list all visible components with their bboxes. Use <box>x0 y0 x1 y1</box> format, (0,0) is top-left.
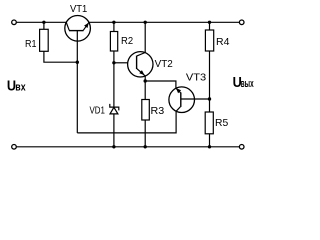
wire bottom rail <box>17 146 240 148</box>
zener diode VD1 cathode bar <box>110 104 119 111</box>
terminal input top <box>12 20 17 25</box>
wire R2 top lead <box>113 22 115 31</box>
transistor VT3 circle <box>169 87 195 113</box>
wire top rail right <box>89 21 239 23</box>
transistor VT3 base bar <box>180 92 182 107</box>
transistor VT2 circle <box>128 52 153 77</box>
svg-text:VT2: VT2 <box>155 59 174 70</box>
junction dot R1 to base <box>76 61 79 64</box>
transistor VT1 collector diagonal <box>66 22 69 30</box>
transistor VT1 circle <box>65 15 91 41</box>
wire VT2 base <box>114 62 128 64</box>
resistor R3 <box>142 100 150 121</box>
junction dot divider R4 R5 <box>208 97 211 100</box>
wire R1 bottom to VT1 base <box>44 51 77 62</box>
wire R4 top lead <box>209 22 211 30</box>
svg-text:R2: R2 <box>121 36 133 47</box>
transistor VT2 emitter arrow <box>139 70 144 75</box>
svg-text:R5: R5 <box>215 118 229 129</box>
resistor R5 <box>205 112 213 134</box>
resistor R2 <box>110 32 117 52</box>
wire VT3 base to divider <box>181 98 210 100</box>
wire VT1 base down <box>76 31 78 133</box>
wire VT2 emitter down to R3 <box>144 76 146 100</box>
transistor VT2 emitter diagonal <box>137 69 145 76</box>
wire emitter link to VT3 <box>145 81 176 88</box>
resistor R4 <box>205 30 213 51</box>
terminal output top <box>239 20 244 25</box>
terminal output bottom <box>239 145 244 150</box>
transistor VT2 collector diagonal <box>137 53 145 56</box>
svg-text:VD1: VD1 <box>90 105 106 116</box>
junction dot rail R1 <box>42 21 45 24</box>
wire R4 bottom to R5 top <box>209 51 211 112</box>
wire R3 bottom lead <box>144 120 146 147</box>
svg-text:вх: вх <box>15 82 26 94</box>
transistor VT1 emitter arrow <box>84 23 89 28</box>
svg-text:R4: R4 <box>216 37 230 48</box>
junction dot bottom R3 <box>144 145 147 148</box>
transistor VT3 collector diagonal <box>176 107 180 112</box>
terminal input bottom <box>12 145 17 150</box>
wire VT2 collector up <box>144 22 146 52</box>
wire bottom link to VT3 collector <box>77 111 176 133</box>
junction dot VT2 emitter node <box>144 79 147 82</box>
svg-text:R1: R1 <box>25 39 37 50</box>
svg-text:вых: вых <box>241 78 254 90</box>
wire top rail left <box>17 21 67 23</box>
transistor VT1 base bar <box>69 30 84 32</box>
wire R2 bottom / VD1 line <box>113 51 115 147</box>
junction dot VD1 VT2 base <box>112 61 115 64</box>
transistor VT3 emitter diagonal <box>176 88 181 93</box>
wire R5 bottom lead <box>209 134 211 147</box>
transistor VT1 emitter diagonal <box>83 23 88 31</box>
transistor VT3 emitter arrow <box>176 88 181 93</box>
junction dot rail R4 <box>208 21 211 24</box>
wire R1 top lead <box>43 22 45 29</box>
zener diode VD1 triangle <box>110 107 118 114</box>
junction dot rail VT2 collector <box>144 21 147 24</box>
svg-text:VT3: VT3 <box>186 73 207 84</box>
junction dot bottom R5 <box>208 145 211 148</box>
svg-text:R3: R3 <box>151 106 165 117</box>
resistor R1 <box>40 29 49 51</box>
junction dot rail R2 <box>112 21 115 24</box>
transistor VT2 base bar <box>136 56 138 69</box>
svg-text:VT1: VT1 <box>70 4 88 15</box>
junction dot bottom VD1 <box>112 145 115 148</box>
